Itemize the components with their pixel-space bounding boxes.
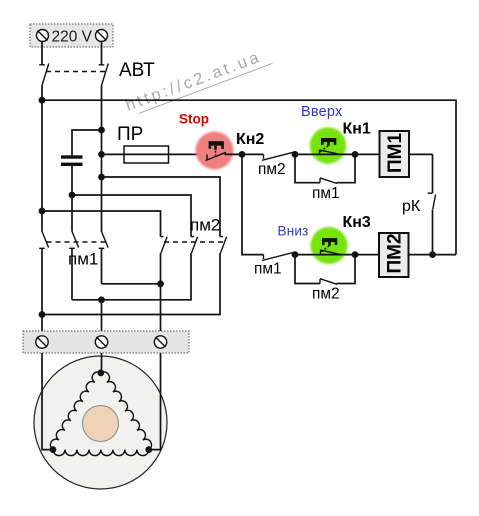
pushbutton Кн2 Stop body xyxy=(196,132,234,170)
pushbutton Кн3 Вниз body xyxy=(311,227,348,264)
node capacitor branch xyxy=(98,127,105,134)
terminal screw M1 xyxy=(36,336,48,348)
svg-text:Stop: Stop xyxy=(179,112,209,127)
svg-text:Вверх: Вверх xyxy=(301,104,343,120)
svg-text:пм2: пм2 xyxy=(190,216,220,235)
terminal screw L xyxy=(37,30,49,42)
contactor coil ПМ1 xyxy=(380,131,410,177)
main contact пм2 pole 1 xyxy=(161,237,168,253)
node L bus junction xyxy=(39,97,46,104)
wire пм1 pole1 to motor terminal xyxy=(41,249,43,332)
svg-text:пм2: пм2 xyxy=(258,161,286,178)
node рК ПМ2 bus xyxy=(429,251,436,258)
main contact пм1 pole 2 xyxy=(69,231,78,248)
terminal screw M2 xyxy=(95,336,107,348)
wire ПМ2 to right bus xyxy=(409,254,457,256)
breaker АВТ mechanical link xyxy=(46,71,106,73)
svg-text:Кн2: Кн2 xyxy=(236,131,264,148)
motor winding phase coil bottom xyxy=(53,450,149,456)
wire Кн1 output to ПМ1 xyxy=(355,153,380,155)
terminal block XT1 220V xyxy=(30,24,113,47)
wire terminal M1 to winding xyxy=(42,353,53,450)
svg-text:Вниз: Вниз xyxy=(278,224,309,239)
svg-text:пм1: пм1 xyxy=(254,261,282,278)
wire1 пм1 pole3 to пм2 pole1 xyxy=(102,283,161,285)
main contact пм2 pole 3 xyxy=(220,237,227,253)
main contact пм2 pole 2 xyxy=(191,237,198,253)
node after Кн2 xyxy=(239,151,246,158)
svg-text:Кн3: Кн3 xyxy=(343,214,371,231)
wire terminal M3 to winding xyxy=(149,353,161,450)
contact пм1 self-hold NO xyxy=(295,154,355,183)
pushbutton Кн1 NO contact xyxy=(320,150,338,155)
svg-text:рК: рК xyxy=(402,198,421,215)
pushbutton Кн1 Вверх body xyxy=(310,127,346,163)
pushbutton Кн2 NC contact xyxy=(206,152,227,160)
node wire C xyxy=(39,208,46,215)
svg-text:Кн1: Кн1 xyxy=(343,121,371,138)
wire left rail breaker to main contact xyxy=(41,86,43,232)
contact рК xyxy=(428,154,436,254)
contact пм2 self-hold NO xyxy=(295,255,355,285)
wire пм2 pole1 to motor terminal xyxy=(160,253,162,331)
svg-text:пм1: пм1 xyxy=(312,185,340,202)
wire N terminal to breaker xyxy=(101,42,103,65)
contact пм1 NC interlock xyxy=(262,252,295,261)
wire through Кн1 xyxy=(295,153,355,155)
watermark text http://c2.at.ua xyxy=(123,45,272,117)
wire terminal M2 to winding xyxy=(101,353,103,373)
motor winding phase coil right xyxy=(101,372,152,450)
wire N rail down xyxy=(101,86,103,232)
main contact пм1 pole 1 xyxy=(39,231,48,248)
node Кн1 input xyxy=(292,151,299,158)
wire ПМ1 to рК xyxy=(409,153,433,155)
node wire2 middle xyxy=(98,296,105,303)
wire C to pm2 pole1 xyxy=(42,211,161,237)
capacitor C1 xyxy=(61,155,83,166)
breaker АВТ pole 2 xyxy=(99,64,109,86)
node Кн3 input xyxy=(292,251,299,258)
wire пм1 pole2 down xyxy=(71,249,73,300)
pushbutton Кн2 mushroom actuator xyxy=(209,141,224,158)
wire2 пм1 pole2 to пм2 pole2 xyxy=(72,253,191,300)
wire through Кн3 xyxy=(295,254,355,256)
wire Кн2 node down to Вниз row xyxy=(242,154,264,254)
main contact пм1 pole 3 xyxy=(99,231,108,248)
wire B to pm2 pole2 xyxy=(72,195,191,237)
terminal screw N xyxy=(96,30,108,42)
пм1 mechanical link xyxy=(47,241,107,243)
svg-text:ПМ2: ПМ2 xyxy=(385,233,406,273)
node Кн3 output xyxy=(352,251,359,258)
пм2 mechanical link xyxy=(164,241,226,243)
node wire3 left xyxy=(39,311,46,318)
breaker АВТ pole 1 xyxy=(39,64,49,86)
wire wire2 to middle terminal xyxy=(101,300,103,331)
wire fuse row xyxy=(102,153,208,155)
node wire B xyxy=(69,192,76,199)
node winding bottom left xyxy=(50,446,57,453)
svg-text:220 V: 220 V xyxy=(52,29,93,46)
node winding top xyxy=(97,369,104,376)
wire A to pm2 pole3 xyxy=(102,177,221,237)
node fuse row xyxy=(98,151,105,158)
contactor coil ПМ2 xyxy=(379,233,409,277)
motor winding phase coil left xyxy=(50,372,100,450)
fuse ПР xyxy=(124,146,169,163)
svg-text:ПМ1: ПМ1 xyxy=(385,133,406,173)
terminal screw M3 xyxy=(154,336,166,348)
wire capacitor to contact xyxy=(71,166,73,232)
wire пм1 pole3 down xyxy=(101,249,103,284)
svg-text:пм2: пм2 xyxy=(312,286,340,303)
wire L terminal to breaker xyxy=(41,42,43,65)
wire to capacitor xyxy=(72,130,102,156)
terminal block XT2 motor xyxy=(23,331,189,353)
node wire1 пм2 pole1 xyxy=(157,280,164,287)
pushbutton Кн3 mushroom actuator xyxy=(321,238,337,252)
motor rotor core xyxy=(83,406,119,442)
wire Кн2 to node xyxy=(225,153,243,155)
node Кн1 output xyxy=(352,151,359,158)
svg-text:АВТ: АВТ xyxy=(119,60,155,81)
wire top bus to right side xyxy=(42,100,456,254)
node wire A xyxy=(98,174,105,181)
motor M1 body xyxy=(34,356,167,489)
contact пм2 NC interlock xyxy=(242,152,295,161)
wire3 пм2 pole3 to left rail xyxy=(42,253,220,315)
pushbutton Кн1 mushroom actuator xyxy=(320,138,336,152)
pushbutton Кн3 NO contact xyxy=(321,250,339,255)
node winding bottom right xyxy=(145,446,152,453)
wire Кн3 output to ПМ2 xyxy=(355,254,379,256)
svg-text:ПР: ПР xyxy=(117,124,143,145)
